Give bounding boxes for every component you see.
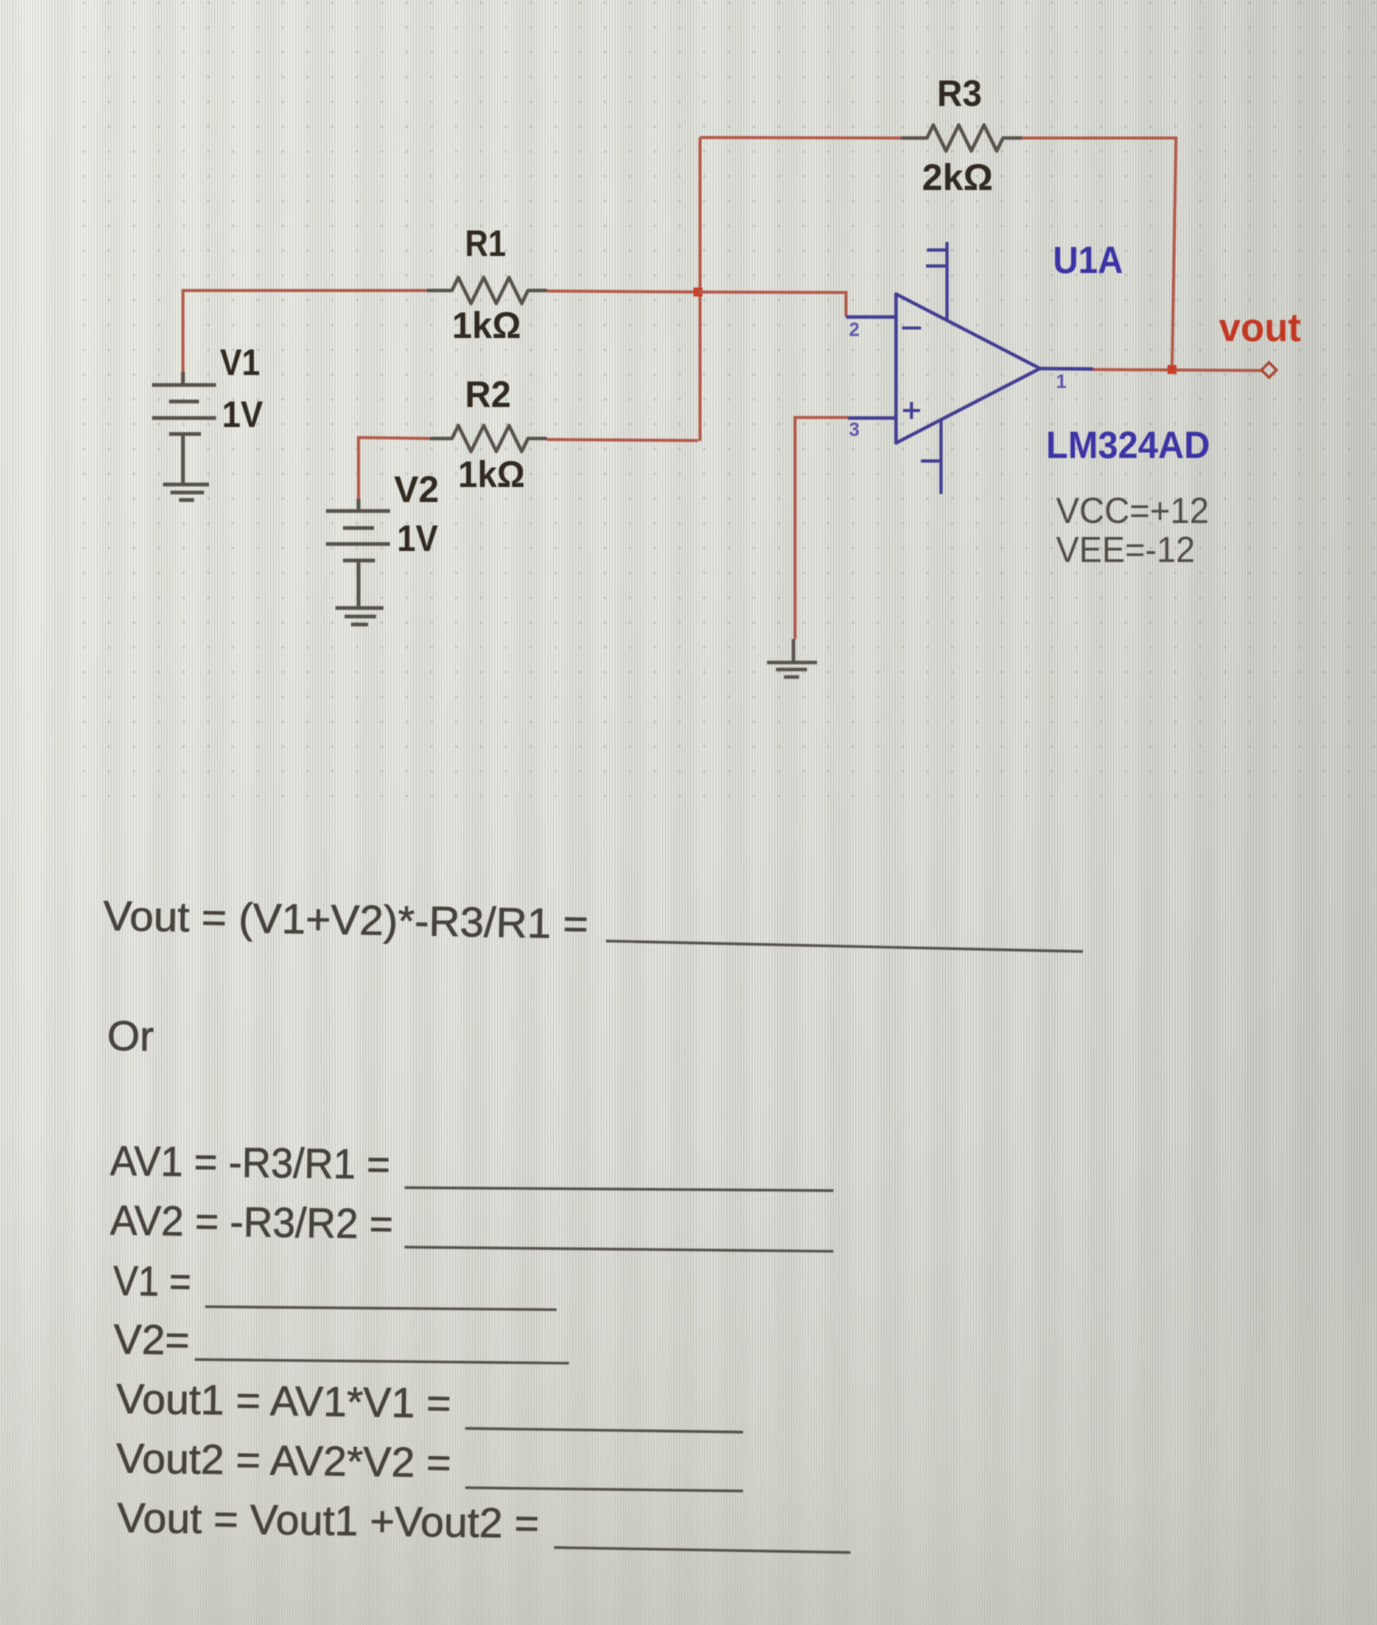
svg-text:R3: R3 <box>937 73 982 114</box>
svg-text:3: 3 <box>849 420 860 441</box>
svg-text:vout: vout <box>1219 306 1301 350</box>
VEE power pin <box>921 420 941 494</box>
svg-text:R2: R2 <box>465 374 511 415</box>
svg-text:1kΩ: 1kΩ <box>452 305 521 346</box>
pin 2 stub <box>846 315 896 318</box>
blank underline 3 <box>405 1247 834 1251</box>
blank underline 5 <box>195 1360 569 1364</box>
ground (V1) <box>163 485 209 501</box>
svg-text:AV2 = -R3/R2 =: AV2 = -R3/R2 = <box>110 1197 394 1248</box>
svg-text:Vout = (V1+V2)*-R3/R1 =: Vout = (V1+V2)*-R3/R1 = <box>103 892 589 947</box>
wire R3 right + feedback right vertical <box>1022 138 1176 370</box>
svg-text:1V: 1V <box>222 394 263 435</box>
svg-text:V1 =: V1 = <box>113 1257 192 1305</box>
VCC power pin <box>926 242 947 321</box>
svg-text:1kΩ: 1kΩ <box>458 454 525 495</box>
wire output to vout <box>1093 370 1262 371</box>
svg-text:1V: 1V <box>397 518 438 559</box>
node junction at R1/R2/feedback <box>694 288 703 297</box>
svg-text:VCC=+12: VCC=+12 <box>1056 490 1209 531</box>
wire feedback left vertical <box>699 138 702 442</box>
node junction output/feedback <box>1168 365 1177 374</box>
blank underline 6 <box>465 1428 743 1432</box>
terminal vout diamond <box>1262 363 1277 378</box>
wire V1 to R1 <box>183 291 427 373</box>
svg-text:2kΩ: 2kΩ <box>922 157 993 198</box>
resistor R2 <box>430 426 547 452</box>
svg-text:V1: V1 <box>220 342 260 383</box>
resistor R3 <box>901 125 1022 151</box>
wire V2 to R2 <box>359 438 431 500</box>
svg-text:Vout2 = AV2*V2 =: Vout2 = AV2*V2 = <box>116 1435 452 1487</box>
blank underline 8 <box>554 1548 850 1553</box>
battery V2 <box>326 499 390 607</box>
op-amp minus <box>902 327 921 330</box>
wire R2 to junction column <box>547 440 698 441</box>
wire ground to non-inverting input <box>795 418 848 640</box>
op-amp plus <box>903 402 920 419</box>
svg-text:Vout1 = AV1*V1 =: Vout1 = AV1*V1 = <box>116 1375 452 1427</box>
wire R3 left <box>700 136 901 140</box>
svg-text:AV1 = -R3/R1 =: AV1 = -R3/R1 = <box>110 1137 391 1188</box>
svg-text:R1: R1 <box>465 223 506 264</box>
svg-text:U1A: U1A <box>1053 240 1123 282</box>
resistor R1 <box>427 278 547 304</box>
battery V1 <box>152 372 216 484</box>
pin 1 output stub <box>1040 367 1093 371</box>
svg-text:VEE=-12: VEE=-12 <box>1056 529 1195 570</box>
svg-text:Vout = Vout1 +Vout2 =: Vout = Vout1 +Vout2 = <box>117 1494 540 1547</box>
blank underline 7 <box>465 1488 743 1491</box>
op-amp U1A triangle <box>896 294 1040 443</box>
ground (op-amp + input) <box>767 639 817 677</box>
svg-text:V2=: V2= <box>113 1316 190 1364</box>
svg-text:2: 2 <box>849 320 860 341</box>
wire junction to inverting input <box>698 292 846 317</box>
wire R1 to junction <box>547 291 698 292</box>
blank underline 1 <box>606 941 1083 952</box>
blank underline 2 <box>405 1188 834 1191</box>
blank underline 4 <box>205 1307 556 1310</box>
svg-text:LM324AD: LM324AD <box>1046 425 1210 467</box>
pin 3 stub <box>848 416 896 419</box>
svg-text:1: 1 <box>1056 372 1067 393</box>
svg-text:V2: V2 <box>394 469 439 510</box>
ground (V2) <box>336 608 384 625</box>
svg-text:Or: Or <box>107 1012 154 1060</box>
